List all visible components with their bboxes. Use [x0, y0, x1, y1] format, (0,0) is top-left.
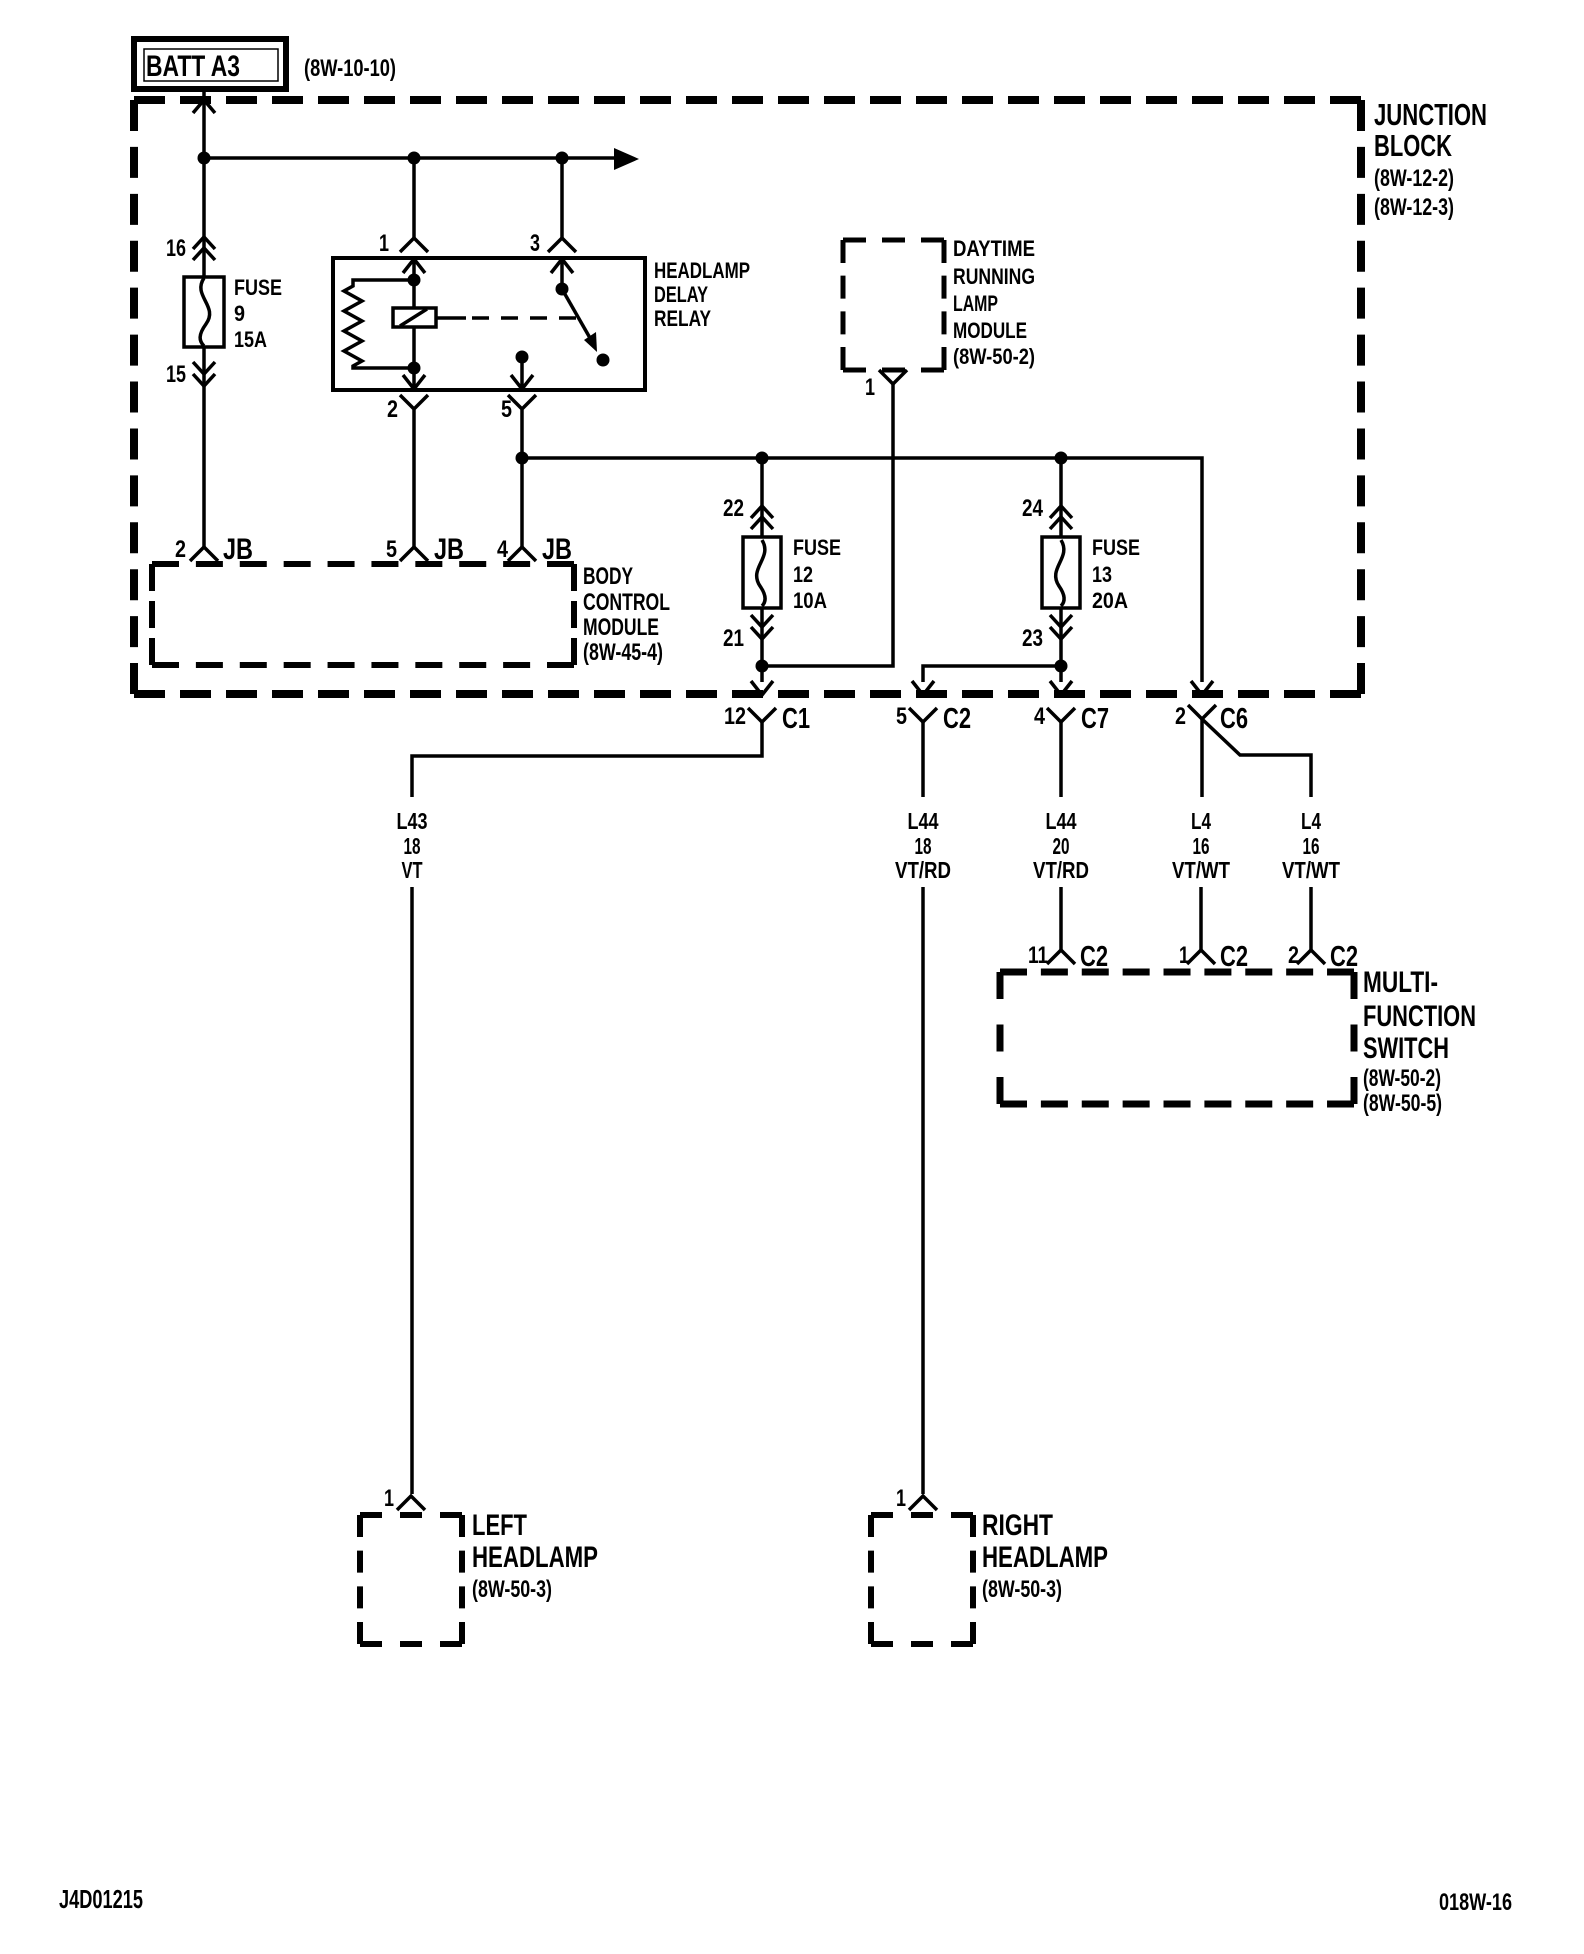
svg-text:JUNCTION: JUNCTION — [1374, 97, 1487, 132]
svg-text:5: 5 — [501, 396, 512, 423]
svg-text:BLOCK: BLOCK — [1374, 128, 1452, 163]
node junction dot bus-left — [198, 152, 211, 165]
multi-function switch label — [1363, 966, 1476, 1117]
connector fork right headlamp pin 1 — [909, 1496, 937, 1510]
multi-function switch dashed box — [1000, 972, 1354, 1104]
junction block dashed boundary — [134, 100, 1361, 694]
svg-text:(8W-45-4): (8W-45-4) — [583, 639, 663, 666]
left headlamp label — [472, 1509, 598, 1603]
wire label L44 18 VT/RD — [895, 808, 951, 883]
wire dot to fuse 12 — [760, 458, 764, 537]
chevron pair pin 15 — [193, 362, 215, 386]
right headlamp dashed box — [871, 1515, 973, 1644]
relay label — [654, 258, 750, 331]
node relay pin 5 dot — [516, 351, 529, 364]
svg-text:DAYTIME: DAYTIME — [953, 236, 1035, 261]
connector fork DRL pin 1 — [879, 370, 907, 384]
body control module label — [583, 563, 670, 666]
svg-text:3: 3 — [530, 230, 540, 257]
wire dot to C2 drop — [923, 666, 1061, 682]
connector fork JB pin 5 — [400, 547, 428, 561]
svg-text:C7: C7 — [1081, 703, 1109, 735]
svg-text:(8W-50-2): (8W-50-2) — [953, 344, 1035, 369]
svg-text:16: 16 — [166, 235, 186, 262]
svg-text:(8W-12-2): (8W-12-2) — [1374, 165, 1454, 192]
svg-text:1: 1 — [379, 230, 389, 257]
node junction dot bus-mid — [408, 152, 421, 165]
wire fuse 9 to BCM pin 2 — [202, 347, 206, 547]
svg-text:FUSE: FUSE — [1092, 535, 1140, 560]
svg-text:HEADLAMP: HEADLAMP — [654, 258, 750, 283]
wire C7 down — [1059, 722, 1063, 797]
svg-text:15: 15 — [166, 361, 186, 388]
resistor relay shunt — [344, 280, 414, 368]
connector arrow C6 — [1191, 681, 1213, 695]
connector fork MFS pin 2 — [1297, 950, 1325, 964]
wire bus to relay pin 1 — [412, 158, 416, 238]
connector fork relay pin 5 below — [508, 395, 536, 547]
chevron pair pin 22 — [751, 506, 773, 529]
wire bus to fuse 9 — [202, 158, 206, 277]
wire bus to relay pin 3 — [560, 158, 564, 238]
node BATT A3 feed box — [134, 39, 286, 89]
svg-text:SWITCH: SWITCH — [1363, 1032, 1449, 1065]
svg-text:BODY: BODY — [583, 563, 633, 590]
connector arrow relay pin 1 — [403, 259, 425, 280]
daytime running lamp module dashed box — [843, 240, 944, 370]
wire fuse 13 dot to C7 — [1059, 666, 1063, 682]
connector arrow C2 — [912, 681, 934, 695]
right headlamp label — [982, 1509, 1108, 1603]
svg-text:C2: C2 — [1080, 941, 1108, 973]
svg-text:21: 21 — [723, 625, 744, 652]
svg-text:LEFT: LEFT — [472, 1509, 527, 1542]
wire label L43 18 VT — [397, 808, 428, 883]
svg-text:13: 13 — [1092, 562, 1112, 587]
svg-text:11: 11 — [1028, 942, 1048, 969]
svg-text:C1: C1 — [782, 703, 810, 735]
connector arrow relay pin 3 — [551, 259, 573, 289]
node junction dot below fuse 13 — [1055, 660, 1068, 673]
wire dot to fuse 13 — [1059, 458, 1063, 537]
svg-text:C6: C6 — [1220, 703, 1248, 735]
svg-text:VT/WT: VT/WT — [1172, 857, 1230, 883]
left headlamp dashed box — [360, 1515, 462, 1644]
svg-text:4: 4 — [1034, 703, 1046, 730]
wire C6 diagonal branch — [1202, 719, 1311, 797]
svg-text:(8W-10-10): (8W-10-10) — [304, 55, 396, 82]
connector arrow C1 — [751, 681, 773, 695]
svg-text:BATT A3: BATT A3 — [146, 50, 240, 83]
svg-text:(8W-50-2): (8W-50-2) — [1363, 1065, 1441, 1092]
svg-text:2: 2 — [175, 536, 186, 563]
svg-text:(8W-50-3): (8W-50-3) — [982, 1576, 1062, 1603]
wire label L4 16 VT/WT left — [1172, 808, 1230, 883]
connector fork JB pin 4 — [508, 547, 536, 561]
connector fork relay pin 2 below — [400, 395, 428, 547]
wire BATT A3 to bus — [202, 91, 206, 158]
svg-text:HEADLAMP: HEADLAMP — [472, 1541, 598, 1574]
svg-text:4: 4 — [497, 536, 509, 563]
node relay coil top dot — [408, 274, 421, 287]
connector fork C6 — [1188, 705, 1216, 719]
node junction dot bus-right — [556, 152, 569, 165]
daytime running lamp module label — [953, 236, 1035, 369]
connector fork MFS pin 11 — [1047, 950, 1075, 964]
fuse F9 — [184, 277, 224, 347]
svg-text:10A: 10A — [793, 588, 827, 613]
wire C1 to left run — [412, 722, 762, 797]
wire L44 to MFS pin 11 — [1059, 887, 1063, 950]
node relay coil bottom dot — [408, 362, 421, 375]
connector fork JB pin 2 — [190, 547, 218, 561]
svg-text:18: 18 — [404, 833, 421, 859]
svg-text:20: 20 — [1053, 833, 1070, 859]
svg-text:VT/RD: VT/RD — [1033, 857, 1089, 883]
svg-text:(8W-50-5): (8W-50-5) — [1363, 1090, 1442, 1117]
fuse 13 value label — [1092, 535, 1140, 613]
svg-text:HEADLAMP: HEADLAMP — [982, 1541, 1108, 1574]
svg-text:RELAY: RELAY — [654, 306, 711, 331]
svg-text:L44: L44 — [1046, 808, 1077, 834]
svg-text:24: 24 — [1022, 495, 1044, 522]
svg-text:(8W-12-3): (8W-12-3) — [1374, 194, 1454, 221]
fuse 12 value label — [793, 535, 841, 613]
connector fork C1 — [748, 708, 776, 722]
chevron pair pin 21 — [751, 615, 773, 639]
svg-text:CONTROL: CONTROL — [583, 589, 670, 616]
svg-text:FUSE: FUSE — [234, 275, 282, 300]
connector arrow relay pin 5 — [511, 357, 533, 389]
svg-text:16: 16 — [1303, 833, 1320, 859]
body control module dashed box — [152, 564, 574, 665]
svg-text:1: 1 — [896, 1485, 906, 1512]
connector fork C2 — [909, 708, 937, 722]
fuse F12 — [743, 537, 781, 608]
wire dot to daytime running lamp module — [762, 384, 893, 666]
wire L44 to right headlamp — [921, 887, 925, 1494]
svg-text:1: 1 — [1179, 942, 1189, 969]
svg-text:1: 1 — [865, 374, 875, 401]
svg-text:12: 12 — [724, 703, 746, 730]
svg-text:C2: C2 — [943, 703, 971, 735]
connector fork relay pin 1 — [400, 238, 428, 252]
connector fork left headlamp pin 1 — [397, 1496, 425, 1510]
wire mid bus to C6 drop — [522, 458, 1202, 682]
node junction dot mid-bus left — [516, 452, 529, 465]
svg-text:L44: L44 — [908, 808, 939, 834]
svg-text:LAMP: LAMP — [953, 291, 998, 316]
svg-text:5: 5 — [896, 703, 907, 730]
switch arm with arrowhead — [562, 289, 597, 352]
connector fork C7 — [1047, 708, 1075, 722]
arrow up into BATT A3 — [193, 100, 215, 113]
fuse 9 value label — [234, 275, 282, 352]
svg-text:FUSE: FUSE — [793, 535, 841, 560]
svg-text:5: 5 — [386, 536, 397, 563]
wire L43 to left headlamp — [410, 887, 414, 1494]
svg-text:VT: VT — [402, 857, 423, 883]
node switch contact dot — [597, 354, 610, 367]
svg-text:MODULE: MODULE — [583, 614, 659, 641]
chevron pair pin 16 — [193, 237, 215, 260]
svg-text:L4: L4 — [1191, 808, 1211, 834]
svg-text:VT/RD: VT/RD — [895, 857, 951, 883]
svg-text:18: 18 — [915, 833, 932, 859]
fuse F13 — [1042, 537, 1080, 608]
wire bus B+ with end arrow — [204, 148, 639, 170]
relay K1 headlamp delay relay box — [333, 258, 645, 390]
svg-text:23: 23 — [1022, 625, 1043, 652]
node junction dot above fuse 13 — [1055, 452, 1068, 465]
svg-text:20A: 20A — [1092, 588, 1128, 613]
node switch pivot dot — [556, 283, 569, 296]
connector fork relay pin 3 — [548, 238, 576, 252]
node junction dot below fuse 12 — [756, 660, 769, 673]
node junction dot above fuse 12 — [756, 452, 769, 465]
svg-text:22: 22 — [723, 495, 744, 522]
svg-text:FUNCTION: FUNCTION — [1363, 1000, 1476, 1033]
svg-text:12: 12 — [793, 562, 813, 587]
svg-text:15A: 15A — [234, 327, 267, 352]
wire L4 to MFS pin 2 — [1309, 887, 1313, 950]
svg-text:1: 1 — [384, 1485, 394, 1512]
chevron pair pin 24 — [1050, 506, 1072, 529]
svg-text:MULTI-: MULTI- — [1363, 966, 1438, 999]
svg-text:16: 16 — [1193, 833, 1210, 859]
connector arrow relay pin 2 — [403, 368, 425, 389]
wire C6 straight down — [1200, 719, 1204, 797]
svg-text:C2: C2 — [1330, 941, 1358, 973]
svg-text:DELAY: DELAY — [654, 282, 708, 307]
svg-text:MODULE: MODULE — [953, 318, 1027, 343]
svg-text:2: 2 — [1288, 942, 1299, 969]
svg-text:9: 9 — [234, 301, 245, 326]
svg-text:L43: L43 — [397, 808, 428, 834]
wire label L4 16 VT/WT right — [1282, 808, 1340, 883]
svg-text:J4D01215: J4D01215 — [59, 1884, 143, 1914]
wire coil linkage dashed — [436, 316, 466, 320]
svg-text:2: 2 — [387, 396, 398, 423]
wire label L44 20 VT/RD — [1033, 808, 1089, 883]
connector fork MFS pin 1 — [1187, 950, 1215, 964]
junction block label — [1374, 97, 1487, 221]
chevron pair pin 23 — [1050, 615, 1072, 639]
svg-text:018W-16: 018W-16 — [1439, 1889, 1512, 1916]
svg-text:RUNNING: RUNNING — [953, 264, 1035, 289]
wire L4 to MFS pin 1 — [1199, 887, 1203, 950]
wire fuse 12 dot to C1 — [760, 666, 764, 682]
svg-text:VT/WT: VT/WT — [1282, 857, 1340, 883]
svg-text:2: 2 — [1175, 703, 1186, 730]
wire fuse 12 to dot — [760, 608, 764, 666]
svg-text:L4: L4 — [1301, 808, 1321, 834]
relay coil — [393, 280, 436, 368]
wire C2 down — [921, 722, 925, 797]
svg-text:RIGHT: RIGHT — [982, 1509, 1053, 1542]
svg-text:(8W-50-3): (8W-50-3) — [472, 1576, 552, 1603]
svg-text:C2: C2 — [1220, 941, 1248, 973]
connector arrow C7 — [1050, 681, 1072, 695]
wire fuse 13 to dot — [1059, 608, 1063, 666]
